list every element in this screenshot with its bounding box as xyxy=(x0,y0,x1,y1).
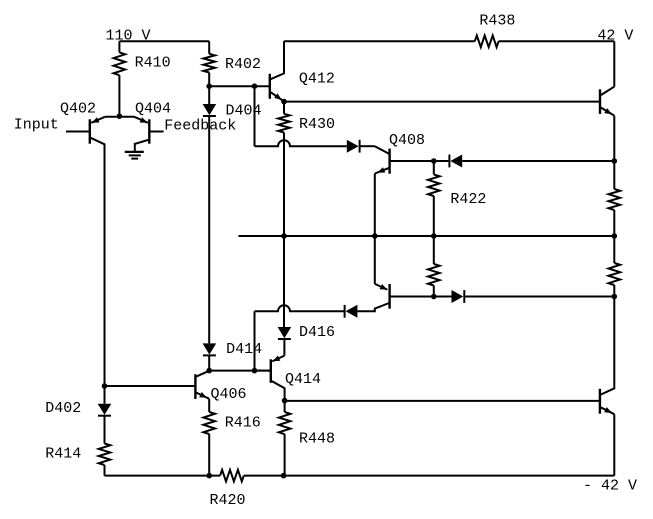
svg-text:D402: D402 xyxy=(45,400,81,417)
svg-text:R410: R410 xyxy=(135,55,171,72)
svg-text:Q412: Q412 xyxy=(299,70,335,87)
svg-text:110 V: 110 V xyxy=(106,27,151,44)
svg-text:42 V: 42 V xyxy=(597,27,633,44)
svg-text:R402: R402 xyxy=(225,56,261,73)
svg-text:R448: R448 xyxy=(299,430,335,447)
svg-text:R430: R430 xyxy=(299,116,335,133)
svg-text:Q402: Q402 xyxy=(60,101,96,118)
svg-text:- 42 V: - 42 V xyxy=(583,477,637,494)
svg-text:Q414: Q414 xyxy=(285,371,321,388)
svg-text:D416: D416 xyxy=(299,324,335,341)
svg-text:Q408: Q408 xyxy=(389,132,425,149)
svg-text:R416: R416 xyxy=(225,414,261,431)
svg-text:R438: R438 xyxy=(479,12,515,29)
svg-text:Feedback: Feedback xyxy=(164,117,236,134)
svg-text:Input: Input xyxy=(14,116,59,133)
svg-text:Q406: Q406 xyxy=(211,386,247,403)
svg-text:R422: R422 xyxy=(450,191,486,208)
svg-text:D404: D404 xyxy=(226,103,262,120)
svg-text:R414: R414 xyxy=(45,446,81,463)
svg-text:R420: R420 xyxy=(210,492,246,509)
svg-text:Q404: Q404 xyxy=(135,101,171,118)
svg-text:D414: D414 xyxy=(226,341,262,358)
